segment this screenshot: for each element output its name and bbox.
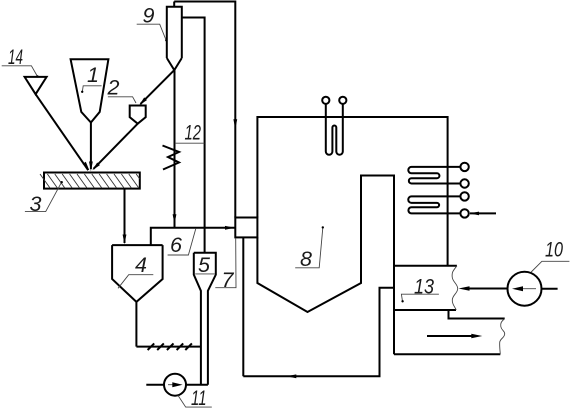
svg-text:13: 13: [414, 275, 434, 299]
furnace 8 walls: [257, 117, 447, 354]
wire 14 to table: [36, 94, 89, 170]
cyclone 9: [167, 2, 182, 71]
wire cyclone outlet to burner box: [174, 2, 235, 218]
air arrow into duct13: [466, 288, 508, 290]
wire cyclone to funnel2: [141, 70, 175, 104]
economizer coil lower: [408, 196, 460, 213]
svg-text:10: 10: [545, 238, 563, 262]
table 3: [40, 173, 140, 189]
svg-text:12: 12: [185, 121, 202, 145]
fan 10: [508, 272, 558, 306]
burner box: [235, 218, 257, 238]
line 6: [151, 228, 235, 245]
feed funnel 1: [71, 59, 109, 122]
economizer coil upper: [408, 167, 460, 184]
break wavy duct13: [452, 266, 458, 310]
svg-text:5: 5: [198, 253, 211, 277]
wire table to hopper4: [124, 189, 126, 243]
funnel 2: [130, 106, 146, 124]
mill 5: [194, 253, 216, 385]
svg-text:3: 3: [30, 192, 42, 216]
wire funnel2 to table: [94, 124, 138, 169]
spring symbol on line 12: [163, 146, 180, 170]
svg-text:7: 7: [222, 268, 235, 292]
gas arrow duct2: [427, 335, 473, 337]
wire cyclone inlet riser: [182, 18, 205, 253]
svg-text:11: 11: [191, 386, 207, 410]
superheater u-tube: [326, 104, 343, 155]
svg-text:6: 6: [170, 233, 182, 257]
svg-text:4: 4: [135, 253, 147, 277]
wire hopper4 down: [135, 302, 137, 347]
gas duct 13: [394, 266, 505, 355]
fan 11: [146, 374, 208, 396]
wire funnel1 to table: [90, 123, 92, 170]
recirculation duct 7: [243, 237, 394, 376]
dust return line 12: [174, 70, 176, 228]
svg-text:1: 1: [87, 63, 99, 87]
nozzle 14: [25, 77, 47, 94]
break wavy duct2: [500, 319, 505, 355]
screw conveyor: [136, 343, 201, 350]
svg-text:2: 2: [107, 76, 120, 100]
water inlet arrow: [470, 212, 496, 214]
svg-text:9: 9: [143, 3, 155, 27]
hopper 4: [112, 245, 163, 302]
steam outlet circles: [322, 97, 329, 104]
